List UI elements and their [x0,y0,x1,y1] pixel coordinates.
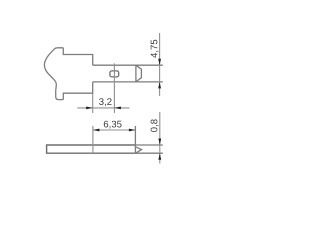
bottom view: chamfered point of blade [136,147,142,153]
top view: foot notch and bottom edge of body [63,82,92,100]
dimension line 4,75 (vertical, right of top view) [159,33,161,96]
detent hole in blade [110,71,119,77]
dimension text 3,2 [99,98,111,106]
arrow right of 3,2 (pointing left at centerline) [114,107,121,110]
extension line at neck (left extension of 3,2) [92,93,94,113]
top view: blade bottom edge extended as extension line [93,81,163,83]
top view: blade tip chamfer (trapezoid) [136,65,142,82]
arrow left of 3,2 (pointing right at neck line) [86,107,93,110]
arrow above blade top edge (pointing down) [158,59,161,65]
dimension line 3,2 [77,107,129,109]
bottom view: bottom edge extension to the right [136,152,163,154]
top view: crimp curl S-profile (left side of terminal) [44,48,63,100]
bottom view: blade side profile rectangle [47,145,136,153]
arrow at right end of 6,35 (pointing right) [129,129,136,132]
dimension text 6,35 [104,121,122,129]
arrow above bottom-view top edge (pointing down) [158,139,161,146]
hole centerline [113,63,115,113]
dimension text 4,75 (rotated) [151,40,159,58]
dimension line 6,35 [93,129,135,131]
top view: tab step and top edge of body [63,48,92,65]
bottom view: tip end line (also right extension of 6,35) [134,126,136,153]
extension line left of 6,35 (through side view) [92,126,94,153]
top view: blade top edge extended as extension line [93,64,163,66]
arrow below bottom-view bottom edge (pointing up) [158,153,161,160]
bottom view: top edge extension to the right [136,144,163,146]
arrow below blade bottom edge (pointing up) [158,82,161,89]
dimension line 0,8 (vertical, right of bottom view) [159,112,161,164]
arrow at left end of 6,35 (pointing left) [93,129,100,132]
dimension text 0,8 (rotated) [151,119,159,132]
